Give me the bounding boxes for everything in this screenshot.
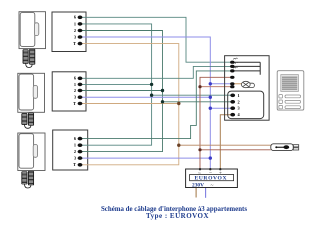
junction dot blue bus / TB2 pin3	[209, 96, 212, 99]
terminal block TB2 box	[52, 72, 86, 111]
door station red terminal dot lower	[230, 85, 234, 88]
svg-text:230V: 230V	[192, 182, 204, 188]
svg-text:1: 1	[238, 93, 240, 98]
door station red terminal dot upper	[230, 76, 234, 79]
lamp L1 bulb circle with cross	[241, 81, 250, 87]
terminal block TB2 pin labels 6 1 2 3 T	[73, 76, 77, 106]
intercom handset H2 handset body	[19, 74, 34, 110]
junction dot red vertical / station lower terminal	[198, 85, 201, 88]
intercom handset H1 coiled cord right	[30, 49, 35, 64]
svg-text:2: 2	[74, 88, 76, 93]
svg-text:2: 2	[74, 149, 76, 154]
junction dot bus A / speaker 1 feed	[150, 94, 153, 97]
svg-text:3: 3	[238, 106, 240, 111]
door station button terminal dots	[230, 61, 234, 73]
intercom handset H3 cord bottom loop	[25, 184, 31, 188]
intercom handset H3 handset body	[19, 134, 34, 169]
terminal block TB2 pins (dots)	[78, 77, 83, 106]
wire mains cord bottom: red vertical tap to plug (dark red)	[200, 149, 271, 151]
svg-text:1: 1	[74, 82, 76, 87]
wire bus net3: TB1 pin3 down blue bus to PSU minus (blue)	[80, 37, 210, 169]
junction dot blue bus / TB3 pin3	[209, 156, 212, 159]
street front panel button 3	[279, 105, 283, 108]
svg-text:1: 1	[74, 143, 76, 148]
junction dot bus B / speaker 2 feed	[161, 100, 164, 103]
wire TB2 pin1 to bus A (teal)	[80, 83, 152, 85]
intercom handset H2 coiled cord left	[22, 114, 27, 125]
intercom handset H1 cord bottom loop	[26, 64, 32, 68]
svg-text:3: 3	[74, 34, 76, 39]
svg-text:EUROVOX: EUROVOX	[194, 176, 227, 182]
wire red net: station terminal to PSU AC terminal (dark red)	[200, 77, 232, 169]
junction dot blue bus / lamp feed	[209, 82, 212, 85]
svg-text:Type : EUROVOX: Type : EUROVOX	[146, 212, 209, 220]
mains plug prong lower	[293, 148, 298, 150]
terminal block TB3 pin labels 6 1 2 3 T	[73, 136, 77, 167]
PSU terminal symbols ~ - +	[198, 170, 222, 176]
wire lamp feed from blue bus to station node (blue)	[210, 83, 232, 85]
wire speaker terminal 3 feed from blue bus (blue)	[210, 107, 232, 109]
street front panel button 1	[279, 95, 283, 98]
svg-text:1: 1	[74, 21, 76, 26]
PSU inner label box	[190, 175, 234, 181]
street front panel button 2	[279, 100, 283, 103]
intercom handset H3 earpiece button	[33, 145, 37, 158]
terminal block TB1 box	[52, 12, 86, 52]
svg-text:~: ~	[198, 170, 201, 176]
mains plug inner symbol	[275, 145, 289, 149]
wire TB3 pin3 to blue bus (blue)	[80, 157, 210, 159]
power supply PSU box	[186, 169, 238, 188]
wire call2: TB2 pin6 to door-station button 2 (teal)	[80, 66, 232, 78]
svg-text:−: −	[209, 170, 212, 176]
intercom handset H2 coiled cord right	[28, 113, 33, 125]
svg-text:2: 2	[238, 99, 240, 104]
street front panel name slot 1	[285, 95, 301, 98]
intercom handset H3 coiled cord right	[28, 171, 33, 185]
intercom handset H3 outer box	[18, 133, 45, 171]
intercom handset H1 handset body	[20, 12, 35, 46]
intercom handset H2 cord bottom loop	[25, 124, 31, 128]
intercom handset H2 earpiece button	[33, 86, 37, 99]
door station lamp terminal dot	[230, 82, 234, 85]
wire TB2 pinT to orange bus (tan)	[80, 103, 179, 105]
terminal block TB1 pins (dots)	[78, 15, 83, 45]
terminal block TB3 box	[53, 130, 88, 170]
mains plug prong upper	[293, 145, 298, 147]
wire station node to lamp (orange)	[232, 83, 241, 85]
wire bus net2: TB1 pin2 down bus B to TB3 pin2 (teal)	[80, 31, 163, 152]
wire TB2 pin3 to blue bus (blue)	[80, 96, 210, 98]
street front panel name slot 2	[285, 100, 301, 103]
wire PSU plus to speaker terminal 4 (brown)	[220, 115, 232, 169]
wire PSU 230V stub left (tan)	[195, 188, 197, 198]
speaker module terminal dots 1-4	[230, 94, 235, 117]
wire call1: TB1 pin6 to door-station button 1 (teal)	[80, 17, 232, 62]
svg-text:T: T	[73, 162, 76, 167]
svg-text:3: 3	[74, 95, 76, 100]
speaker module terminal labels 1 2 3 4	[238, 93, 241, 117]
svg-text:3: 3	[74, 156, 76, 161]
junction dot orange bus / TB2 pinT	[177, 102, 180, 105]
junction dot blue bus / speaker 3 feed	[209, 107, 212, 110]
wire call3: TB3 pin6 to door-station button 3 (teal)	[80, 71, 232, 139]
door station call button contacts bracket	[232, 62, 260, 75]
wire PSU 230V stub right (blue)	[205, 188, 207, 198]
door station speaker module box	[228, 91, 264, 119]
mains plug body	[271, 144, 294, 151]
street front panel name slot 3	[285, 106, 301, 109]
wire TB2 pin2 to bus B (teal)	[80, 90, 163, 92]
street front panel speaker grille	[281, 75, 299, 92]
junction dot bus B / TB2 pin2	[161, 89, 164, 92]
terminal block TB1 pin labels 6 1 2 3 T	[73, 15, 77, 46]
door station unit outer box	[225, 56, 270, 121]
intercom handset H3 coiled cord left	[22, 172, 27, 184]
street front panel outer	[277, 71, 304, 110]
wire speaker terminal 1 feed from bus A (teal)	[152, 94, 233, 96]
junction dot orange bus / mains cord top	[177, 144, 180, 147]
svg-text:2: 2	[74, 28, 76, 33]
wire bus net1: TB1 pin1 down bus A to TB3 pin1 (teal)	[80, 24, 152, 145]
door station button switch squiggles	[233, 58, 237, 68]
intercom handset H2 outer box	[18, 73, 45, 112]
junction dot red vertical / mains cord bottom	[198, 148, 201, 151]
intercom handset H1 earpiece button	[34, 23, 38, 36]
wire speaker terminal 2 feed from bus B (teal)	[163, 101, 233, 103]
lamp L1 base	[246, 83, 254, 87]
intercom handset H1 outer box	[19, 12, 46, 49]
PSU terminal dots	[199, 168, 222, 170]
terminal block TB3 pins (dots)	[78, 137, 83, 167]
svg-text:T: T	[73, 41, 76, 46]
junction dot bus A / TB2 pin1	[150, 83, 153, 86]
svg-text:T: T	[73, 101, 76, 106]
wire mains cord top: orange bus tap to plug (tan)	[179, 144, 271, 146]
wire red net 2: tap to station lower terminal (red)	[200, 86, 232, 88]
svg-text:+: +	[219, 170, 222, 176]
svg-text:~: ~	[211, 182, 214, 188]
intercom handset H1 coiled cord left	[23, 50, 28, 64]
wire bus netT: TB1 pinT down orange bus to TB3 pinT (tan)	[80, 44, 179, 165]
